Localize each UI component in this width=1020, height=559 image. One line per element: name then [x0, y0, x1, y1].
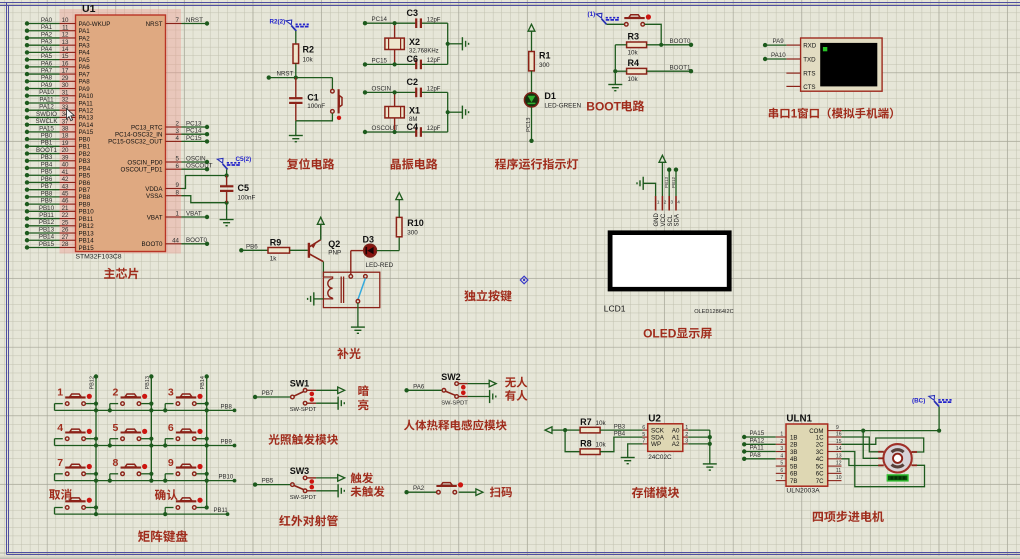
junction R2/C1	[294, 76, 298, 80]
tiny net labels OLED	[664, 176, 676, 188]
svg-text:12pF: 12pF	[427, 18, 441, 24]
resistor R2	[293, 44, 299, 63]
svg-text:BOOT1: BOOT1	[36, 147, 58, 154]
chip U1 part number	[76, 254, 122, 261]
svg-text:PA9: PA9	[773, 38, 785, 45]
svg-text:PB12: PB12	[671, 176, 676, 188]
svg-text:4: 4	[176, 135, 180, 142]
keypad column labels	[90, 376, 207, 389]
svg-text:PB5: PB5	[41, 169, 53, 176]
svg-text:R2: R2	[303, 45, 315, 55]
svg-text:5: 5	[176, 156, 180, 163]
svg-text:PC15: PC15	[372, 57, 388, 64]
svg-text:46: 46	[62, 198, 69, 205]
svg-text:22: 22	[62, 212, 69, 219]
svg-text:PA10: PA10	[771, 52, 786, 59]
svg-text:3: 3	[671, 200, 674, 205]
svg-text:PB4: PB4	[41, 161, 53, 168]
LCD1 screen	[608, 230, 732, 291]
wire relay coil to earth	[314, 298, 324, 300]
svg-text:PA1: PA1	[79, 28, 91, 35]
svg-text:PA15: PA15	[79, 129, 94, 136]
svg-text:PC15: PC15	[186, 135, 202, 142]
chip U2 pins	[642, 425, 688, 448]
svg-text:LCD1: LCD1	[604, 304, 626, 314]
svg-text:R1: R1	[539, 51, 551, 61]
svg-text:PB13: PB13	[39, 226, 55, 233]
svg-text:TXD: TXD	[803, 56, 816, 63]
svg-text:PB5: PB5	[262, 478, 274, 485]
label R8	[580, 439, 606, 449]
svg-text:VDDA: VDDA	[145, 186, 163, 193]
svg-text:5: 5	[113, 422, 119, 434]
svg-text:6B: 6B	[790, 471, 797, 478]
keypad buttons 1-9	[55, 394, 209, 481]
svg-text:2: 2	[685, 432, 688, 438]
svg-text:PA4: PA4	[79, 50, 91, 57]
label ULN2003A	[786, 488, 820, 495]
svg-text:PA12: PA12	[79, 108, 94, 115]
resistor R8	[580, 449, 600, 455]
pin names inside U1 right	[108, 21, 163, 248]
svg-text:PB10: PB10	[39, 205, 55, 212]
svg-text:7: 7	[57, 457, 63, 469]
wire VSSA to C5	[182, 196, 227, 203]
svg-text:4: 4	[780, 453, 783, 459]
svg-text:1: 1	[791, 109, 798, 121]
svg-text:ULN1: ULN1	[786, 414, 812, 425]
wire R1 to D1	[531, 71, 533, 93]
svg-text:Q2: Q2	[328, 239, 340, 249]
svg-text:PA8: PA8	[79, 79, 91, 86]
chip U2 body	[648, 424, 683, 452]
svg-text:GND: GND	[654, 213, 660, 227]
wire OLED GND	[643, 183, 655, 196]
svg-text:C2: C2	[407, 77, 419, 87]
power arrow Q2 emitter	[317, 217, 324, 239]
svg-text:SW-SPDT: SW-SPDT	[290, 407, 317, 413]
svg-text:14: 14	[836, 446, 842, 452]
keypad row wires PB8-PB11	[55, 409, 237, 516]
wire VDDA to C5	[182, 176, 227, 189]
svg-text:27: 27	[62, 234, 69, 241]
ground U2 WP	[621, 458, 635, 464]
ground relay	[351, 327, 365, 333]
ground under C5	[220, 220, 234, 226]
wire D1 to PC13 node	[529, 107, 533, 143]
svg-text:12pF: 12pF	[427, 126, 441, 132]
svg-text:PB8: PB8	[79, 194, 91, 201]
svg-text:300: 300	[539, 62, 550, 69]
power arrow R10	[396, 193, 403, 218]
svg-text:PB15: PB15	[79, 245, 95, 252]
chip ULN1 body	[786, 424, 828, 486]
svg-text:SW-SPDT: SW-SPDT	[290, 495, 317, 501]
svg-text:25: 25	[62, 219, 69, 226]
switch SW1	[253, 379, 345, 414]
svg-text:18: 18	[62, 133, 69, 140]
svg-text:7: 7	[780, 475, 783, 481]
svg-text:14: 14	[62, 46, 69, 53]
label R7	[580, 417, 606, 427]
relay RL1 box	[323, 272, 379, 307]
svg-text:PB7: PB7	[41, 183, 53, 190]
wire button bottom	[296, 113, 333, 121]
wire R7 to U2 SCK	[600, 429, 643, 431]
label C5(2) cursor	[217, 156, 251, 175]
label 晶振电路	[391, 158, 438, 169]
svg-text:PA0-WKUP: PA0-WKUP	[79, 21, 111, 28]
svg-text:PA11: PA11	[39, 96, 54, 103]
pin stubs U1 right	[166, 24, 182, 244]
label R1	[539, 51, 551, 70]
svg-text:U2: U2	[648, 414, 661, 425]
wire PA9 RXD	[763, 43, 787, 47]
svg-text:VBAT: VBAT	[147, 214, 163, 221]
svg-text:PB5: PB5	[79, 173, 91, 180]
label 红外对射管	[279, 515, 338, 526]
power arrow D1	[528, 24, 535, 51]
svg-text:SW2: SW2	[441, 372, 461, 382]
svg-text:PA13: PA13	[79, 115, 94, 122]
ground U2 right	[703, 464, 717, 470]
svg-text:X1: X1	[409, 106, 420, 116]
keypad row labels	[214, 404, 234, 514]
svg-text:PB3: PB3	[79, 158, 91, 165]
svg-text:4B: 4B	[790, 456, 797, 463]
label U2	[648, 414, 661, 425]
resistor R1	[529, 52, 535, 71]
svg-text:PB2: PB2	[79, 151, 91, 158]
svg-text:PB3: PB3	[41, 154, 53, 161]
svg-text:R4: R4	[628, 58, 640, 68]
svg-text:11: 11	[62, 24, 69, 31]
svg-text:PA2: PA2	[413, 485, 425, 492]
svg-text:PB14: PB14	[39, 234, 55, 241]
svg-text:PB12: PB12	[79, 223, 95, 230]
svg-text:OSCOUT: OSCOUT	[186, 163, 213, 170]
svg-text:5: 5	[642, 432, 645, 438]
wire R9 to Q2 base	[290, 249, 308, 251]
svg-text:20: 20	[62, 147, 69, 154]
svg-text:BOOT: BOOT	[586, 100, 621, 114]
svg-text:SW-SPDT: SW-SPDT	[441, 401, 468, 407]
label BOOT电路	[586, 100, 644, 114]
wire C1 to ground	[295, 121, 297, 136]
svg-text:30: 30	[62, 82, 69, 89]
svg-text:RTS: RTS	[803, 71, 815, 78]
svg-text:PA8: PA8	[41, 75, 53, 82]
label OLED12864I2C	[694, 309, 734, 315]
svg-text:OSCIN_PD0: OSCIN_PD0	[127, 159, 163, 166]
svg-text:BOOT0: BOOT0	[186, 237, 208, 244]
svg-text:C5: C5	[238, 183, 250, 193]
relay switch	[349, 275, 367, 304]
wire U2 WP to ground	[628, 444, 643, 458]
label 四项步进电机	[813, 511, 884, 522]
svg-text:31: 31	[62, 89, 69, 96]
svg-text:13: 13	[62, 39, 69, 46]
svg-text:37: 37	[62, 118, 69, 125]
svg-text:1k: 1k	[270, 256, 278, 263]
label 串口1窗口（模拟手机端）	[769, 108, 893, 121]
svg-text:100nF: 100nF	[307, 103, 325, 110]
wire to boot button	[607, 23, 625, 25]
svg-text:PA15: PA15	[750, 430, 765, 437]
wire COM rail	[842, 407, 942, 433]
svg-text:X2: X2	[409, 37, 420, 47]
LED D1	[524, 93, 538, 107]
label C5	[238, 183, 256, 202]
svg-text:3: 3	[176, 128, 180, 135]
svg-text:6: 6	[780, 468, 783, 474]
svg-text:R8: R8	[580, 439, 592, 449]
transistor Q2	[309, 240, 324, 262]
svg-text:10k: 10k	[303, 57, 314, 64]
svg-text:12pF: 12pF	[427, 58, 441, 64]
svg-text:SWCLK: SWCLK	[35, 118, 58, 125]
scan button	[436, 482, 463, 494]
svg-text:17: 17	[62, 68, 69, 75]
svg-text:1: 1	[685, 425, 688, 431]
svg-text:13: 13	[836, 453, 842, 459]
svg-text:PB4: PB4	[79, 165, 91, 172]
pin stubs ULN right	[828, 425, 842, 481]
svg-text:PB6: PB6	[79, 180, 91, 187]
svg-text:12: 12	[62, 32, 69, 39]
svg-text:1C: 1C	[816, 434, 824, 441]
svg-text:2: 2	[664, 200, 667, 205]
svg-text:PB9: PB9	[221, 440, 233, 446]
svg-text:SDA: SDA	[675, 214, 681, 226]
svg-text:PA7: PA7	[41, 67, 53, 74]
svg-text:C4: C4	[407, 122, 419, 132]
net label BOOT0	[670, 38, 692, 45]
svg-text:PB8: PB8	[221, 404, 233, 410]
label 复位电路	[287, 158, 335, 170]
svg-text:16: 16	[836, 432, 842, 438]
junction R3 button	[659, 43, 663, 47]
wire to reset button	[331, 78, 333, 90]
svg-text:100nF: 100nF	[238, 195, 256, 202]
wire 1C to motor	[842, 437, 884, 452]
svg-text:4: 4	[57, 422, 63, 434]
svg-text:PA11: PA11	[79, 100, 94, 107]
wire COM to motor	[863, 431, 883, 459]
svg-text:PA5: PA5	[41, 53, 53, 60]
svg-text:R9: R9	[270, 238, 282, 248]
power arrow storage	[545, 427, 565, 434]
terminal screen	[820, 43, 877, 87]
svg-text:LED-GREEN: LED-GREEN	[544, 102, 581, 109]
svg-text:10k: 10k	[628, 76, 639, 83]
svg-text:PB10: PB10	[79, 209, 95, 216]
net label PA10	[771, 52, 786, 59]
label 光照触发模块	[269, 434, 339, 445]
svg-text:STM32F103C8: STM32F103C8	[76, 254, 122, 261]
pin numbers U1 right	[172, 17, 179, 244]
label 触发	[351, 472, 374, 483]
svg-text:1: 1	[57, 387, 63, 399]
svg-text:PB12: PB12	[90, 376, 96, 389]
svg-text:24C02C: 24C02C	[648, 454, 672, 461]
label 扫码	[490, 487, 512, 498]
svg-text:PB10: PB10	[219, 475, 234, 481]
svg-text:PA14: PA14	[79, 122, 94, 129]
chip U1 refdes label	[82, 3, 96, 15]
label 亮	[358, 399, 369, 410]
svg-text:1: 1	[657, 200, 660, 205]
svg-text:3: 3	[168, 387, 174, 399]
svg-text:6: 6	[168, 422, 174, 434]
svg-text:PA2: PA2	[41, 31, 53, 38]
net label PA9	[773, 38, 785, 45]
svg-text:COM: COM	[809, 428, 823, 435]
pin names inside U1 left	[79, 21, 111, 252]
capacitor C1	[289, 78, 302, 121]
keypad column wires PB12 PB13 PB14	[94, 374, 209, 514]
wire R3 left	[615, 44, 626, 46]
node C5 bottom	[225, 201, 229, 205]
svg-text:10k: 10k	[628, 50, 639, 57]
svg-text:PA8: PA8	[750, 452, 762, 459]
terminal pin names and stubs	[786, 43, 816, 91]
svg-text:PB13: PB13	[664, 176, 669, 188]
resistor R10	[396, 217, 402, 236]
wire R2 to NRST node	[295, 63, 297, 77]
svg-text:SWDIO: SWDIO	[36, 111, 57, 118]
net label PB6	[246, 243, 258, 250]
svg-text:RXD: RXD	[803, 43, 817, 50]
label 存储模块	[632, 487, 679, 498]
svg-text:D1: D1	[544, 91, 556, 101]
svg-text:9: 9	[176, 182, 180, 189]
svg-text:10: 10	[836, 475, 842, 481]
svg-text:2: 2	[780, 439, 783, 445]
wire R4 right BOOT1	[647, 69, 694, 73]
svg-text:26: 26	[62, 227, 69, 234]
svg-text:A0: A0	[672, 427, 680, 434]
svg-text:32.768KHz: 32.768KHz	[409, 48, 439, 54]
label D3	[363, 235, 394, 269]
svg-text:19: 19	[62, 140, 69, 147]
label (1) cursor	[588, 11, 620, 24]
selection halo around U1	[60, 9, 182, 254]
svg-text:OLED12864I2C: OLED12864I2C	[694, 309, 734, 315]
wire OLED SDA	[674, 168, 678, 197]
svg-text:VCC: VCC	[661, 213, 667, 226]
svg-text:PA15: PA15	[39, 125, 54, 132]
svg-text:PB7: PB7	[79, 187, 91, 194]
svg-text:3B: 3B	[790, 449, 797, 456]
svg-text:PA3: PA3	[41, 39, 53, 46]
label NRST net	[277, 71, 294, 78]
svg-text:29: 29	[62, 75, 69, 82]
svg-text:PA6: PA6	[41, 60, 53, 67]
wire 3C to motor	[842, 452, 925, 487]
svg-text:28: 28	[62, 241, 69, 248]
svg-text:PB8: PB8	[41, 190, 53, 197]
svg-text:3: 3	[780, 446, 783, 452]
svg-text:16: 16	[62, 60, 69, 67]
mouse cursor	[67, 109, 75, 121]
svg-text:NRST: NRST	[186, 17, 203, 24]
origin marker diamond	[520, 276, 528, 284]
svg-text:6: 6	[176, 163, 180, 170]
switch SW2	[404, 372, 496, 407]
svg-text:PB13: PB13	[79, 230, 95, 237]
svg-text:VSSA: VSSA	[146, 193, 163, 200]
pin names inside ULN1	[790, 428, 824, 485]
wires U2 A0 A1 A2	[688, 430, 712, 464]
svg-text:PA0: PA0	[41, 17, 53, 24]
svg-text:10k: 10k	[596, 442, 607, 449]
svg-text:PB3: PB3	[614, 424, 626, 430]
pin stubs ULN left	[776, 432, 786, 482]
svg-text:PA3: PA3	[79, 42, 91, 49]
capacitor C5	[220, 176, 233, 203]
svg-text:11: 11	[836, 468, 841, 474]
svg-text:12pF: 12pF	[427, 87, 441, 93]
wire R3 right BOOT0	[647, 43, 694, 47]
svg-text:PB6: PB6	[246, 243, 258, 250]
net label BOOT1	[670, 65, 692, 72]
svg-text:R3: R3	[628, 32, 640, 42]
svg-text:PB11: PB11	[39, 212, 54, 219]
wires U1 right terminals	[182, 21, 210, 246]
svg-text:SCL: SCL	[668, 214, 674, 226]
label 取消	[49, 489, 71, 500]
svg-text:41: 41	[62, 169, 69, 176]
wire above R2	[295, 31, 297, 44]
relay coil	[323, 277, 343, 304]
svg-text:C5(2): C5(2)	[236, 156, 252, 163]
svg-text:PNP: PNP	[328, 250, 341, 257]
resistor R7	[580, 427, 600, 433]
svg-text:WP: WP	[651, 441, 661, 448]
svg-text:BOOT0: BOOT0	[670, 38, 692, 45]
net labels PA0-PB15	[35, 17, 58, 248]
svg-text:VBAT: VBAT	[186, 210, 202, 217]
label C1	[307, 93, 325, 111]
svg-text:OLED: OLED	[643, 327, 677, 341]
net labels right NRST PC13 PC14 PC15 OSCIN OSCOUT VBAT BOOT0	[186, 17, 213, 244]
node C5 top	[225, 173, 229, 177]
net label PB3	[614, 424, 626, 430]
svg-text:10k: 10k	[596, 420, 607, 427]
svg-text:PB1: PB1	[41, 140, 53, 147]
svg-text:PA5: PA5	[79, 57, 91, 64]
keypad digits	[57, 387, 174, 469]
label 未触发	[351, 486, 385, 497]
wire Q2 collector to relay	[322, 262, 324, 277]
svg-text:PB9: PB9	[79, 201, 91, 208]
svg-text:(1): (1)	[588, 11, 596, 18]
svg-text:3: 3	[685, 439, 688, 445]
svg-text:OSCIN: OSCIN	[372, 85, 392, 92]
svg-text:BOOT0: BOOT0	[142, 241, 164, 248]
svg-text:PB13: PB13	[145, 376, 151, 389]
svg-text:2C: 2C	[816, 442, 824, 449]
svg-text:3C: 3C	[816, 449, 824, 456]
wire R8 to U2 SDA	[600, 437, 643, 452]
svg-text:PA6: PA6	[413, 383, 425, 390]
svg-text:7: 7	[176, 17, 180, 24]
wire 2C to motor	[842, 438, 924, 452]
svg-text:8M: 8M	[409, 117, 417, 123]
svg-text:PB9: PB9	[41, 198, 53, 205]
svg-text:A2: A2	[672, 441, 680, 448]
